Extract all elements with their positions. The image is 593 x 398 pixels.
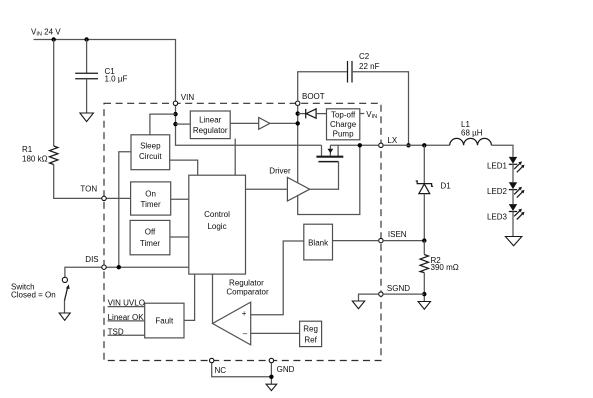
- junction GND: [269, 375, 273, 379]
- svg-text:D1: D1: [441, 181, 452, 190]
- wire: switch to ground: [64, 301, 66, 314]
- junction on top rail (C1): [84, 37, 88, 41]
- MOSFET Q1 source lead: [321, 145, 323, 156]
- junction DIS-sleep: [117, 265, 121, 269]
- svg-text:1.0 µF: 1.0 µF: [105, 75, 128, 84]
- junction ISEN-R2-D1: [422, 238, 426, 242]
- wire: C2 right leg to LX: [352, 72, 409, 146]
- pin LX: [379, 143, 383, 147]
- junction R2-SGND: [422, 292, 426, 296]
- svg-text:180 kΩ: 180 kΩ: [22, 155, 48, 164]
- wire: VIN to Sleep Circuit top: [150, 114, 176, 135]
- pin VIN: [173, 101, 177, 105]
- ground (LED chain): [505, 237, 521, 246]
- switch S1 lever: [65, 288, 68, 301]
- wire: comparator output to Control Logic: [212, 274, 214, 323]
- svg-text:Pump: Pump: [333, 129, 354, 138]
- ground (SGND): [352, 301, 364, 309]
- block Sleep Circuit: [131, 135, 170, 170]
- svg-text:C2: C2: [359, 52, 370, 61]
- junction VIN-linreg: [173, 122, 177, 126]
- wire: Control Logic to driver: [246, 188, 288, 190]
- block On Timer: [131, 182, 171, 215]
- wire: LX external rail: [383, 144, 450, 146]
- junction C2-LX: [406, 143, 410, 147]
- wire: SGND pin to left ground: [359, 294, 379, 301]
- svg-text:NC: NC: [215, 366, 227, 375]
- svg-text:Regulator: Regulator: [193, 126, 228, 135]
- svg-text:Top-off: Top-off: [331, 111, 356, 120]
- svg-text:LED3: LED3: [487, 213, 508, 222]
- wire: gate to driver output: [310, 162, 339, 190]
- wire: driver low rail loop to LX: [298, 145, 360, 214]
- ground (R2): [418, 302, 430, 310]
- capacitor C1: [75, 72, 98, 74]
- wire: VIN to Linear Regulator: [176, 123, 191, 125]
- wire: comparator - to Reg Ref: [251, 332, 300, 334]
- comparator (regulator): [213, 302, 251, 345]
- IC boundary dashed box: [104, 103, 381, 360]
- svg-text:Logic: Logic: [207, 222, 226, 231]
- wire: R2 bottom: [423, 273, 425, 302]
- pin BOOT: [296, 101, 300, 105]
- capacitor C2: [347, 61, 349, 83]
- pin SGND: [379, 292, 383, 296]
- wire: TON pin to On Timer: [106, 197, 130, 199]
- svg-text:TON: TON: [80, 185, 97, 194]
- svg-text:Closed = On: Closed = On: [11, 290, 56, 299]
- MOSFET Q1 gate bar: [318, 161, 338, 163]
- wire: LED1-LED2: [512, 164, 514, 182]
- block Off Timer: [130, 220, 170, 254]
- wire: LED2-LED3: [512, 190, 514, 205]
- LED2: [509, 182, 517, 189]
- svg-text:VIN 24 V: VIN 24 V: [31, 27, 61, 37]
- wire: GND pin down: [270, 363, 272, 385]
- wire: NC pin to GND: [212, 363, 272, 377]
- wire: ISEN pin to R2: [383, 240, 424, 242]
- wire: diode anode lead: [298, 113, 306, 115]
- svg-text:R1: R1: [22, 145, 33, 154]
- wire: SGND pin to R2: [383, 293, 424, 295]
- svg-text:390 mΩ: 390 mΩ: [431, 263, 459, 272]
- pin NC: [210, 358, 214, 362]
- wire: Fault output to Control Logic: [184, 274, 195, 320]
- svg-text:Timer: Timer: [140, 239, 160, 248]
- pin TON: [102, 196, 106, 200]
- svg-text:SGND: SGND: [387, 284, 410, 293]
- svg-text:Sleep: Sleep: [140, 141, 161, 150]
- wire: L1 to LED chain: [491, 145, 513, 157]
- pin ISEN: [379, 238, 383, 242]
- wire: Linear Regulator to buffer: [230, 122, 259, 124]
- wire: Sleep right to Control Logic: [170, 160, 198, 175]
- wire: buffer to BOOT net: [270, 122, 298, 124]
- svg-text:+: +: [242, 309, 247, 318]
- wire: C2 left leg from BOOT: [298, 72, 348, 101]
- switch S1 contact: [62, 277, 67, 282]
- block Top-off Charge Pump: [327, 109, 360, 140]
- wire: VIN 24V top rail: [34, 40, 176, 102]
- wire: Off Timer to Control Logic: [170, 236, 189, 238]
- wire: BOOT vertical: [297, 106, 299, 184]
- wire: R1 top leg: [53, 40, 55, 147]
- svg-text:On: On: [145, 189, 156, 198]
- wire: R1 bottom leg to TON: [54, 165, 102, 199]
- svg-text:Blank: Blank: [308, 239, 329, 248]
- pin GND: [269, 358, 273, 362]
- svg-text:GND: GND: [277, 365, 295, 374]
- diode D1 schottky: [416, 181, 433, 186]
- block Reg Ref: [300, 321, 322, 346]
- svg-text:Circuit: Circuit: [139, 152, 162, 161]
- wire: DIS pin to Control Logic: [106, 266, 189, 268]
- ground (switch): [59, 313, 70, 320]
- buffer amplifier: [259, 118, 270, 130]
- junction on top rail (R1): [52, 37, 56, 41]
- svg-text:Ref: Ref: [304, 335, 317, 344]
- MOSFET Q1 body lead with arrow: [329, 145, 331, 155]
- wire: Sleep left to DIS vertical: [119, 152, 131, 267]
- svg-text:LED1: LED1: [487, 161, 508, 170]
- junction VIN-sleep: [173, 112, 177, 116]
- block Linear Regulator: [190, 111, 230, 139]
- MOSFET Q1 drain rail: [330, 144, 379, 146]
- driver amplifier: [287, 177, 309, 201]
- diode (top-off charge pump): [305, 109, 307, 118]
- wire: C1 top leg: [86, 40, 88, 74]
- wire: DIS external to switch: [65, 267, 102, 277]
- svg-text:68 µH: 68 µH: [461, 128, 483, 137]
- ground (GND pin): [266, 384, 277, 390]
- svg-text:DIS: DIS: [85, 255, 98, 264]
- svg-text:LX: LX: [387, 136, 397, 145]
- svg-text:Comparator: Comparator: [226, 287, 269, 296]
- LED3: [509, 204, 517, 211]
- svg-text:Reg: Reg: [303, 324, 318, 333]
- junction driver-LX: [358, 143, 362, 147]
- svg-text:Timer: Timer: [141, 200, 161, 209]
- svg-text:Regulator: Regulator: [229, 278, 264, 287]
- svg-text:LED2: LED2: [487, 187, 508, 196]
- wire: On Timer to Control Logic: [171, 198, 189, 200]
- wire: LED3 to ground: [512, 212, 514, 237]
- svg-text:VIN: VIN: [181, 93, 195, 102]
- wire: Blank to comparator + input: [251, 241, 304, 315]
- svg-text:Off: Off: [145, 228, 156, 237]
- wire: C1 bottom leg: [86, 79, 88, 113]
- svg-text:Driver: Driver: [269, 166, 291, 175]
- svg-text:Fault: Fault: [155, 316, 174, 325]
- block Blank: [304, 224, 333, 260]
- resistor R2: [423, 241, 425, 255]
- resistor R1: [50, 146, 58, 165]
- svg-text:Linear: Linear: [199, 115, 222, 124]
- svg-text:22 nF: 22 nF: [359, 62, 380, 71]
- wire: top-off to VIN label: [360, 113, 365, 115]
- pin DIS: [102, 265, 106, 269]
- block Control Logic: [189, 175, 246, 274]
- inductor L1: [450, 138, 492, 145]
- junction D1-LX: [422, 143, 426, 147]
- wire: D1 cathode lead: [423, 145, 425, 183]
- wire: VIN pin to internal rail: [176, 106, 322, 146]
- wire: Linear Regulator bottom to Control Logic: [234, 139, 236, 176]
- block Fault: [145, 303, 184, 338]
- svg-text:Charge: Charge: [330, 120, 357, 129]
- svg-text:–: –: [243, 329, 248, 338]
- junction BOOT-buffer: [296, 121, 300, 125]
- MOSFET Q1 channel bar: [316, 156, 343, 158]
- svg-text:Control: Control: [204, 210, 230, 219]
- junction BOOT-diode: [296, 111, 300, 115]
- LED1: [509, 157, 517, 164]
- wire: Blank to ISEN pin: [333, 240, 379, 242]
- MOSFET Q1 drain lead: [337, 145, 339, 156]
- svg-text:ISEN: ISEN: [388, 230, 407, 239]
- ground (C1): [80, 113, 94, 122]
- svg-text:BOOT: BOOT: [302, 92, 325, 101]
- wire: D1 anode to ISEN: [423, 194, 425, 241]
